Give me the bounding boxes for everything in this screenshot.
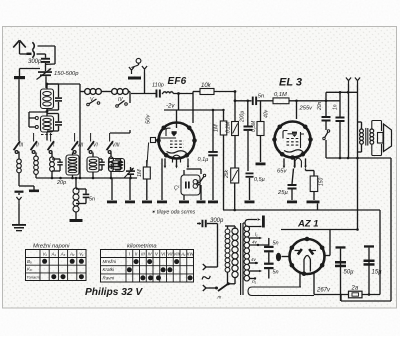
svg-text:VII: VII xyxy=(77,143,84,149)
svg-text:VIII: VIII xyxy=(173,252,180,257)
svg-text:kilometrima: kilometrima xyxy=(127,244,157,250)
svg-text:VI: VI xyxy=(93,143,98,149)
svg-text:110p: 110p xyxy=(152,83,164,89)
svg-text:A₁: A₁ xyxy=(180,252,186,257)
svg-text:Ç¹: Ç¹ xyxy=(174,186,180,192)
svg-text:15µ: 15µ xyxy=(372,270,383,276)
svg-text:EF6: EF6 xyxy=(168,76,187,87)
svg-text:1M: 1M xyxy=(214,124,220,132)
svg-text:4v: 4v xyxy=(251,257,257,262)
svg-text:255v: 255v xyxy=(299,106,314,112)
svg-text:-2v: -2v xyxy=(166,104,175,110)
svg-text:150-500p: 150-500p xyxy=(54,71,79,77)
svg-text:50v: 50v xyxy=(146,114,152,124)
svg-text:267v: 267v xyxy=(316,288,331,294)
svg-text:III: III xyxy=(19,143,24,149)
svg-text:A₃: A₃ xyxy=(60,252,66,257)
svg-text:A₂: A₂ xyxy=(69,252,75,257)
svg-text:A₁: A₁ xyxy=(51,252,57,257)
svg-text:0,1µ: 0,1µ xyxy=(198,157,209,163)
svg-text:Philips 32 V: Philips 32 V xyxy=(85,287,143,298)
svg-text:20n: 20n xyxy=(317,101,323,111)
svg-text:300p: 300p xyxy=(28,59,42,65)
svg-text:Mrežni: Mrežni xyxy=(103,259,118,264)
svg-text:Kratki: Kratki xyxy=(103,267,116,272)
svg-text:0,1M: 0,1M xyxy=(274,92,287,98)
svg-text:0,3: 0,3 xyxy=(195,179,200,186)
svg-text:25k: 25k xyxy=(224,169,230,179)
svg-text:40v: 40v xyxy=(264,109,270,118)
svg-text:VIII: VIII xyxy=(112,143,120,149)
svg-text:150: 150 xyxy=(319,177,325,186)
svg-text:4v: 4v xyxy=(252,240,258,245)
svg-text:Ravni: Ravni xyxy=(103,275,116,280)
svg-text:200µ: 200µ xyxy=(240,111,246,123)
svg-text:0,2M: 0,2M xyxy=(226,121,232,133)
svg-text:KW: KW xyxy=(187,252,195,257)
svg-text:5n: 5n xyxy=(273,270,279,276)
svg-text:Mrežni naponi: Mrežni naponi xyxy=(33,244,70,250)
svg-text:50µ: 50µ xyxy=(344,270,355,276)
svg-text:0,5µ: 0,5µ xyxy=(254,177,265,183)
svg-text:1n: 1n xyxy=(333,104,339,110)
svg-text:2a: 2a xyxy=(351,286,359,292)
svg-text:Kₒ: Kₒ xyxy=(27,267,32,272)
svg-text:AZ 1: AZ 1 xyxy=(297,219,319,230)
svg-text:65v: 65v xyxy=(277,169,287,175)
svg-text:5n: 5n xyxy=(89,197,95,203)
svg-text:Bₒ: Bₒ xyxy=(27,259,32,264)
svg-text:n₁: n₁ xyxy=(252,280,257,285)
svg-text:25µ: 25µ xyxy=(277,190,288,196)
svg-text:V₁: V₁ xyxy=(79,252,84,257)
svg-text:5n: 5n xyxy=(258,94,264,100)
svg-text:m: m xyxy=(218,295,222,300)
svg-text:V₁: V₁ xyxy=(42,252,47,257)
svg-text:1M: 1M xyxy=(137,169,143,177)
svg-text:Tonarm: Tonarm xyxy=(27,274,41,279)
svg-text:20p: 20p xyxy=(56,180,66,186)
svg-text:0,5M: 0,5M xyxy=(251,120,257,132)
svg-text:EL 3: EL 3 xyxy=(279,77,302,89)
svg-text:✶ tilaye oda scrms: ✶ tilaye oda scrms xyxy=(151,210,196,216)
svg-text:VII: VII xyxy=(167,252,173,257)
svg-text:5n: 5n xyxy=(273,241,279,247)
